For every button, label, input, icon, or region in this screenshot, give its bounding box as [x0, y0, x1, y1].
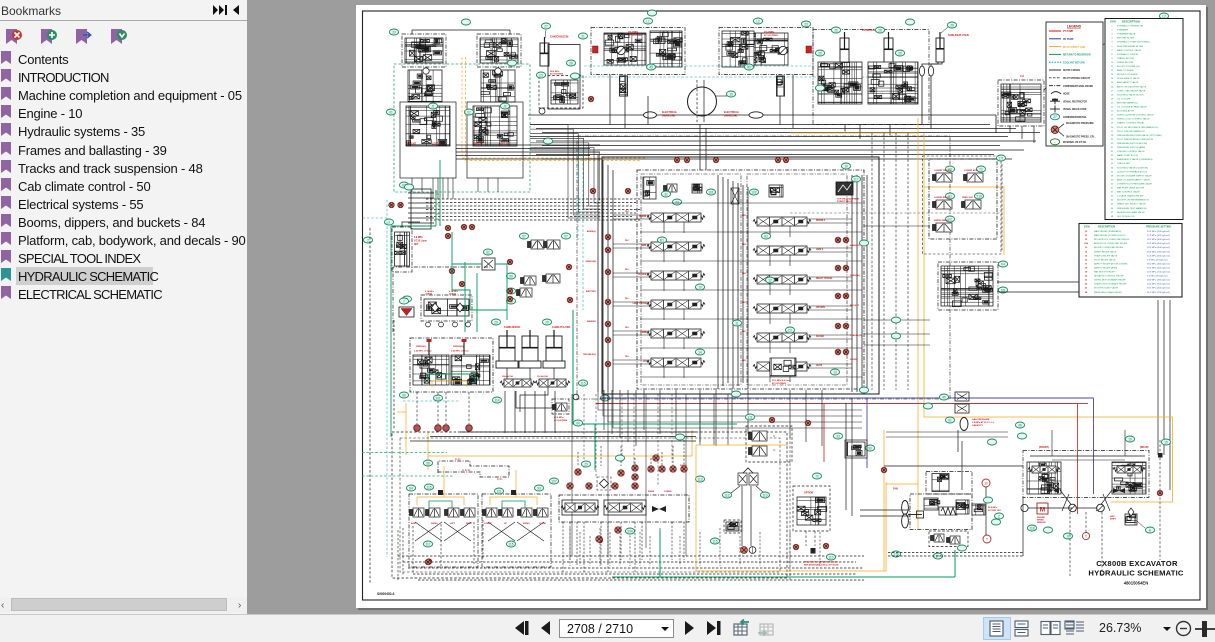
- hose joint ellipse a: [919, 66, 924, 76]
- svg-text:CX800B EXCAVATOR: CX800B EXCAVATOR: [1096, 559, 1178, 568]
- orange dash pair between travel motors: [461, 57, 463, 158]
- svg-text:64: 64: [576, 421, 580, 425]
- dashed bottom rails: [398, 555, 864, 557]
- svg-text:84: 84: [409, 486, 413, 490]
- svg-text:RETURN TO RESERVOIR: RETURN TO RESERVOIR: [1063, 55, 1091, 57]
- svg-text:LOWER ARM: LOWER ARM: [964, 169, 978, 172]
- callout 26b: [875, 27, 884, 33]
- callout at 910,22: [905, 19, 914, 25]
- callout 16: [726, 91, 735, 97]
- svg-text:C2: C2: [788, 328, 792, 332]
- return spool group 2: [604, 500, 646, 515]
- joystick right green bracket: [502, 501, 525, 509]
- callout V4: [998, 261, 1007, 267]
- callout 01: [386, 109, 395, 115]
- return spool group 1: [562, 500, 598, 515]
- svg-text:SWING: SWING: [680, 465, 687, 467]
- svg-text:29: 29: [545, 320, 549, 324]
- callout 45: [939, 394, 948, 400]
- callout 113b: [760, 492, 769, 498]
- svg-text:ARM: ARM: [411, 522, 416, 525]
- svg-text:32: 32: [664, 192, 668, 196]
- callout 293r: [581, 461, 590, 467]
- callout 7: [399, 298, 408, 304]
- callout 43 left: [646, 64, 655, 70]
- svg-text:RIGHT TRAVEL: RIGHT TRAVEL: [816, 277, 833, 280]
- svg-text:SET: SET: [414, 244, 419, 246]
- block 28 dashed box: [539, 76, 583, 109]
- circle top left assembly: [423, 68, 429, 74]
- boom valve left: [818, 62, 862, 104]
- cushion lever left: [428, 341, 430, 356]
- schematic outer border: [363, 11, 1201, 600]
- orange drop left joystick: [443, 466, 445, 497]
- swing motor left block: [591, 28, 685, 75]
- pedal motor circles: [741, 547, 748, 554]
- fan internals valves: [924, 498, 940, 510]
- mid bundle horizontals: [426, 198, 640, 200]
- svg-text:2-STAGE TRAVEL RELIEF: 2-STAGE TRAVEL RELIEF: [1117, 195, 1144, 198]
- spare cylinder 26c: [936, 32, 944, 62]
- svg-text:107: 107: [551, 479, 557, 483]
- svg-text:20.6 MPa (210 kgf/cm2): 20.6 MPa (210 kgf/cm2): [1147, 272, 1170, 274]
- legend row orifice: [1050, 100, 1060, 102]
- callout 171: [996, 155, 1005, 161]
- wires solenoid to right: [997, 281, 1090, 283]
- svg-text:CLOSE: CLOSE: [539, 523, 547, 525]
- svg-text:SUPPLY DRAIN: SUPPLY DRAIN: [1063, 69, 1080, 72]
- legend row SUPPLY DRAIN: [1049, 69, 1061, 71]
- svg-text:LEFT: LEFT: [450, 523, 456, 525]
- svg-text:26: 26: [878, 28, 882, 32]
- svg-text:29: 29: [584, 462, 588, 466]
- callout 21: [578, 33, 587, 39]
- svg-text:7: 7: [403, 299, 405, 303]
- callout 61: [945, 417, 954, 423]
- svg-text:HYDRAULIC SCHEMATIC: HYDRAULIC SCHEMATIC: [1088, 569, 1184, 578]
- callout 57a: [519, 233, 528, 239]
- svg-text:DOZER: DOZER: [850, 359, 858, 361]
- svg-text:DIAGNOSTIC PRESS. CPL.: DIAGNOSTIC PRESS. CPL.: [1066, 135, 1096, 138]
- svg-text:27: 27: [544, 24, 548, 28]
- callout 22: [389, 29, 398, 35]
- svg-text:3.9 MPa (40 kgf/cm2): 3.9 MPa (40 kgf/cm2): [1147, 259, 1168, 261]
- svg-text:T1: T1: [773, 436, 776, 438]
- top wire bundle: [530, 124, 990, 126]
- navy line: [600, 397, 1094, 399]
- svg-text:9: 9: [1067, 534, 1069, 538]
- svg-text:117: 117: [425, 542, 430, 546]
- spool right BOOM 2: [753, 217, 811, 226]
- svg-text:Y10: Y10: [976, 194, 982, 198]
- svg-text:PB1: PB1: [742, 302, 747, 304]
- svg-text:P1 P2: P1 P2: [455, 459, 461, 461]
- svg-text:L2: L2: [1162, 14, 1166, 18]
- svg-text:28: 28: [569, 61, 573, 65]
- svg-text:59: 59: [509, 274, 513, 278]
- swing motor right block: [719, 28, 813, 75]
- solenoid valve Y2: [933, 200, 953, 209]
- green corner left: [391, 225, 436, 227]
- fan right wires: [985, 487, 987, 535]
- svg-text:294: 294: [627, 529, 633, 533]
- pedal drop lines: [741, 486, 743, 546]
- motor plain circle: [1021, 504, 1028, 511]
- xport at 428,562: [425, 559, 431, 565]
- svg-text:SWING MOTOR: SWING MOTOR: [1117, 62, 1134, 64]
- callout L2: [1159, 13, 1168, 19]
- svg-text:39.2 MPa (400 kgf/cm2): 39.2 MPa (400 kgf/cm2): [1147, 243, 1170, 245]
- check valve 6b diamond: [457, 303, 464, 312]
- return manifold risers: [577, 452, 579, 466]
- svg-text:TRAVEL CONTROL PEDAL: TRAVEL CONTROL PEDAL: [1117, 122, 1145, 125]
- svg-text:10V 4A 30A: 10V 4A 30A: [537, 375, 548, 378]
- teal dash under cushion: [403, 400, 460, 402]
- callout 58s: [506, 298, 515, 304]
- svg-text:90: 90: [868, 446, 872, 450]
- svg-text:LEFT B: LEFT B: [432, 143, 441, 146]
- svg-text:DOZER: DOZER: [816, 336, 824, 338]
- swing motor circle left: [617, 46, 625, 54]
- svg-text:LOWER TRAVEL: LOWER TRAVEL: [934, 169, 952, 172]
- red port circle c: [443, 425, 450, 432]
- svg-text:DRIFT: DRIFT: [1110, 519, 1117, 521]
- black dash vertical x790: [789, 437, 791, 580]
- callout 115b: [710, 538, 719, 544]
- svg-text:3.43 MPa 1.9 l/min: 3.43 MPa 1.9 l/min: [451, 350, 470, 353]
- circle i: [573, 394, 579, 400]
- svg-text:PB1: PB1: [742, 360, 747, 362]
- solenoid valve Y3: [933, 173, 953, 182]
- wires 26c down: [921, 76, 923, 125]
- bank to valve5 wires: [516, 391, 552, 408]
- svg-text:A RIGHT: A RIGHT: [406, 143, 417, 146]
- callout at 620,458: [615, 455, 624, 461]
- svg-text:PB1: PB1: [742, 273, 747, 275]
- svg-text:58: 58: [426, 461, 430, 465]
- svg-text:PA1: PA1: [625, 239, 630, 242]
- svg-text:110: 110: [828, 555, 833, 559]
- callout at 896,336: [891, 333, 900, 339]
- pump enclosure frame top: [393, 267, 490, 332]
- svg-text:HOSE: HOSE: [1063, 94, 1070, 96]
- svg-text:DESCRIPTION: DESCRIPTION: [1098, 226, 1115, 229]
- option block 72: [793, 486, 830, 531]
- motor bottom drops: [1069, 512, 1071, 576]
- fan feed verticals: [845, 403, 847, 510]
- svg-text:10A 4A 70A: 10A 4A 70A: [502, 375, 513, 378]
- drops from block23: [844, 124, 846, 132]
- green bottom run: [594, 424, 596, 470]
- small circles below valve 6: [426, 322, 431, 327]
- legend row PD PUMP: [1049, 38, 1061, 40]
- svg-text:SWING(L): SWING(L): [416, 346, 426, 348]
- xports right rail: [843, 237, 849, 243]
- red line: [596, 403, 1078, 405]
- callout 113: [695, 476, 704, 482]
- svg-text:SYM: SYM: [1110, 20, 1116, 24]
- travel out bundle: [456, 144, 600, 146]
- leader 26c: [941, 27, 948, 33]
- legend row hose: [1051, 92, 1061, 94]
- svg-text:CHECK: CHECK: [425, 293, 433, 295]
- orange drop right joystick: [515, 470, 517, 497]
- svg-text:BOOM CYLINDER SAFETY VALVE: BOOM CYLINDER SAFETY VALVE: [1117, 174, 1152, 177]
- right lower wires: [884, 465, 1023, 467]
- main control valve outer box: [602, 157, 879, 394]
- svg-text:BOOM HOLDING VALVE: BOOM HOLDING VALVE: [1094, 287, 1119, 290]
- spool left AUX: [647, 358, 705, 367]
- svg-text:AT SYSTEMS: AT SYSTEMS: [550, 73, 564, 76]
- svg-text:BUCKET: BUCKET: [850, 305, 860, 307]
- port circle T: [983, 535, 991, 543]
- svg-text:SWING RELIEF VALVE: SWING RELIEF VALVE: [1094, 250, 1117, 253]
- svg-text:115: 115: [508, 542, 513, 546]
- svg-text:46: 46: [1018, 423, 1022, 427]
- svg-text:48015054EN: 48015054EN: [1124, 581, 1148, 586]
- svg-text:35.3 MPa 4.0 l/min: 35.3 MPa 4.0 l/min: [772, 379, 791, 382]
- svg-text:AUX2: AUX2: [816, 364, 823, 367]
- block 23 dashdot box: [813, 30, 929, 125]
- svg-text:BOOM 1: BOOM 1: [639, 216, 649, 218]
- callout 112: [722, 492, 731, 498]
- svg-text:PB1: PB1: [742, 215, 747, 217]
- svg-text:115: 115: [426, 485, 431, 489]
- black dash left verticals: [369, 228, 371, 583]
- hose joint ellipse b: [928, 66, 933, 76]
- svg-text:C-8: C-8: [1020, 75, 1025, 78]
- svg-text:PB1: PB1: [742, 244, 747, 246]
- svg-text:STROKE CONTROL VALVE: STROKE CONTROL VALVE: [1117, 150, 1145, 153]
- mcv bottom small relief: [770, 358, 796, 376]
- callout H: [1145, 527, 1154, 533]
- svg-text:SHSLD126-4YER: SHSLD126-4YER: [948, 33, 969, 37]
- swivel joint right: [749, 112, 763, 118]
- red port circle b: [435, 425, 442, 432]
- fan symbol: [902, 501, 909, 515]
- svg-text:12: 12: [768, 278, 772, 282]
- boom cylinder left: [840, 32, 849, 63]
- svg-text:LINE FILTER: LINE FILTER: [1117, 163, 1130, 165]
- green to pedal: [595, 423, 737, 425]
- callout motors right: [1161, 439, 1170, 445]
- filter center top: [731, 188, 739, 204]
- spool left BOOM 1: [647, 213, 705, 222]
- svg-text:AT TEST RIG: AT TEST RIG: [988, 509, 1001, 512]
- xport pair left edge: [389, 202, 394, 207]
- svg-text:SEE CAB PILOT PRESSURE VALVE: SEE CAB PILOT PRESSURE VALVE: [804, 561, 838, 564]
- bundle verticals mid: [699, 125, 701, 171]
- svg-text:PILOT SUPPLY LINE: PILOT SUPPLY LINE: [1063, 47, 1086, 49]
- xport left of swing: [588, 96, 593, 101]
- motor connect bar: [1028, 507, 1072, 509]
- callout 43 right: [744, 64, 753, 70]
- svg-text:34.3 MPa (350 kgf/cm2): 34.3 MPa (350 kgf/cm2): [1147, 284, 1170, 286]
- callout 93: [534, 485, 543, 491]
- xports left rail: [605, 234, 611, 240]
- black dash vertical right: [1159, 440, 1161, 560]
- port circle bottom: [1082, 532, 1089, 539]
- svg-text:SOLENOID VALVE BLOCK: SOLENOID VALVE BLOCK: [1117, 93, 1144, 96]
- valve 6 internals: [424, 299, 469, 316]
- boom cylinder trio 3: [546, 330, 562, 362]
- svg-text:72: 72: [815, 474, 819, 478]
- svg-text:DIAGNOSTIC PRESSURE: DIAGNOSTIC PRESSURE: [1066, 122, 1094, 125]
- callout under M: [1027, 525, 1036, 531]
- right mid valve cluster: [938, 262, 998, 310]
- svg-text:SWING DRIVE: SWING DRIVE: [934, 220, 949, 222]
- callout motors bottom: [1063, 533, 1072, 539]
- svg-text:28.9 MPa (295 kgf/cm2): 28.9 MPa (295 kgf/cm2): [1147, 280, 1170, 282]
- svg-text:21.6 MPa: 21.6 MPa: [554, 417, 564, 419]
- legend row PILOT SUPPLY LINE: [1049, 46, 1061, 48]
- callouts mcv middle: [657, 237, 666, 243]
- svg-text:62: 62: [486, 250, 490, 254]
- svg-text:117: 117: [853, 177, 858, 181]
- callout 60: [506, 288, 515, 294]
- svg-text:19: 19: [844, 164, 848, 168]
- joystick right valves: [483, 508, 498, 517]
- callout 111r: [494, 488, 503, 494]
- right riser lower: [1157, 300, 1159, 455]
- xport option left: [793, 544, 798, 549]
- svg-text:PA1: PA1: [625, 268, 630, 271]
- svg-text:LOWER: LOWER: [484, 523, 492, 525]
- orange horiz top: [790, 132, 918, 134]
- svg-text:BOOM CYLINDER (x2): BOOM CYLINDER (x2): [1117, 66, 1140, 68]
- svg-text:NEGATIVE CONTROL RELIEF: NEGATIVE CONTROL RELIEF: [1094, 275, 1124, 278]
- svg-text:LOWER PILOT PRESSURE VALVE: LOWER PILOT PRESSURE VALVE: [1117, 182, 1152, 185]
- svg-text:3.4 MPa AT 20 C 1.0 L: 3.4 MPa AT 20 C 1.0 L: [972, 421, 995, 424]
- xport right of joysticks: [597, 537, 602, 542]
- svg-text:A2: A2: [764, 234, 768, 238]
- spool left BUCKET: [647, 271, 705, 280]
- callout 23: [801, 21, 810, 27]
- svg-text:39.2 MPa (400 kgf/cm2): 39.2 MPa (400 kgf/cm2): [1147, 263, 1170, 265]
- callout 96: [399, 392, 408, 398]
- cushion valves right: [451, 355, 490, 385]
- svg-text:ARM SAFETY VALVE: ARM SAFETY VALVE: [1117, 81, 1139, 84]
- parts table tall: [1105, 19, 1183, 220]
- svg-text:RAISE: RAISE: [648, 490, 655, 493]
- xport bottomleft: [426, 559, 431, 564]
- cushion valves left: [413, 355, 449, 385]
- travel motors outer frame: [1023, 451, 1149, 498]
- swing motor circle right: [779, 46, 787, 54]
- svg-text:SWING CUSHION CONTROL VALVE: SWING CUSHION CONTROL VALVE: [1117, 114, 1154, 117]
- svg-text:121: 121: [538, 73, 544, 77]
- svg-text:23: 23: [804, 22, 808, 26]
- orange connector fan: [886, 483, 918, 485]
- valve bank segment 2: [535, 379, 570, 387]
- mcv long drops to bus: [571, 394, 573, 556]
- block 28 valve: [551, 80, 578, 104]
- svg-text:SAFETY RELIEF (BOOM LOWER): SAFETY RELIEF (BOOM LOWER): [1094, 262, 1128, 265]
- callout 63: [399, 182, 408, 188]
- svg-text:TOP ONLY EQUIPMENT: TOP ONLY EQUIPMENT: [837, 199, 860, 201]
- L2 drops: [1009, 126, 1011, 133]
- svg-text:OIL COOLER BYPASS VALVE: OIL COOLER BYPASS VALVE: [1117, 106, 1147, 109]
- svg-text:VENIAL REGULATOR: VENIAL REGULATOR: [1063, 108, 1087, 111]
- svg-text:BOOM 2: BOOM 2: [816, 220, 826, 222]
- svg-text:39.2 MPa (400 kgf/cm2): 39.2 MPa (400 kgf/cm2): [1147, 288, 1170, 290]
- callout at 988,500: [983, 497, 992, 503]
- green bracket cushion: [428, 374, 475, 383]
- svg-text:57: 57: [522, 234, 526, 238]
- svg-text:SWING(R): SWING(R): [586, 261, 597, 263]
- callout 27: [541, 23, 550, 29]
- svg-text:57: 57: [564, 234, 568, 238]
- callout V5: [998, 287, 1007, 293]
- svg-text:115: 115: [580, 381, 585, 385]
- callout J1: [428, 103, 437, 109]
- svg-text:SWING: SWING: [640, 332, 648, 334]
- svg-text:L2: L2: [756, 19, 760, 23]
- red port circle d: [466, 425, 473, 432]
- svg-text:TRAVEL(R): TRAVEL(R): [850, 334, 862, 337]
- svg-text:PRESSURE REDUCING VALVE (OPTIO: PRESSURE REDUCING VALVE (OPTIONAL): [1117, 134, 1162, 137]
- svg-text:FAN: FAN: [893, 488, 898, 491]
- motor cross wires: [1060, 490, 1112, 511]
- callout row mcv top: [661, 191, 670, 197]
- spring stack below left swing: [620, 76, 628, 96]
- rear bowtie: [1113, 488, 1125, 493]
- callout 115r: [506, 541, 515, 547]
- svg-text:PRESSURE SWITCH (BOOM): PRESSURE SWITCH (BOOM): [1117, 143, 1147, 145]
- svg-text:PRESSURE SWITCH (ARM): PRESSURE SWITCH (ARM): [1117, 146, 1145, 149]
- svg-text:QUICK FIT UPGRADE BLOCK: QUICK FIT UPGRADE BLOCK: [1117, 170, 1148, 173]
- svg-text:93: 93: [537, 486, 541, 490]
- svg-text:MAIN CONTROL VALVE: MAIN CONTROL VALVE: [1117, 49, 1142, 52]
- svg-text:13: 13: [833, 370, 837, 374]
- valve 58s: [517, 288, 533, 297]
- drops from swing right: [779, 96, 781, 125]
- svg-text:SWING: SWING: [523, 523, 530, 525]
- callout at 652,13: [647, 10, 656, 16]
- callout 25b: [895, 50, 904, 56]
- svg-text:14: 14: [698, 350, 702, 354]
- svg-text:P2 P1: P2 P1: [497, 479, 503, 481]
- bundle stubs down from travel: [411, 178, 413, 192]
- circle top right assembly: [495, 68, 501, 74]
- red MA box left: [593, 46, 599, 53]
- travel pedal valves: [738, 473, 747, 485]
- svg-text:STRAINER VALVE: STRAINER VALVE: [1117, 33, 1136, 36]
- solenoid outer dashed box: [923, 156, 1002, 254]
- mcv internal connectors: [640, 202, 862, 204]
- fan shaft: [908, 514, 922, 516]
- valve 59: [543, 274, 561, 283]
- joystick right box: [482, 494, 551, 567]
- orange frame bottom-center: [696, 444, 788, 446]
- callout at 928,406: [923, 403, 932, 409]
- svg-text:PA1: PA1: [625, 210, 630, 213]
- wire cylinder 26c left: [922, 62, 938, 66]
- green verticals through bundle: [435, 190, 437, 226]
- svg-text:RIGHT: RIGHT: [466, 523, 473, 525]
- black junction square: [811, 548, 816, 554]
- svg-text:J1: J1: [431, 104, 435, 108]
- svg-text:OPTION: OPTION: [804, 492, 813, 495]
- svg-text:TRAVEL MOTOR: TRAVEL MOTOR: [1117, 57, 1134, 60]
- svg-text:ARMS(R): ARMS(R): [850, 244, 860, 247]
- green dash feed lower: [362, 475, 453, 477]
- xport above solenoids: [769, 417, 774, 422]
- svg-text:34.3 MPa (350 kgf/cm2): 34.3 MPa (350 kgf/cm2): [1147, 231, 1170, 233]
- svg-text:PILOT OIL RETURN FILTER (MANIF: PILOT OIL RETURN FILTER (MANIFOLD): [1117, 126, 1159, 129]
- spool right RIGHT TRAVEL: [753, 275, 811, 284]
- svg-text:(FRONT): (FRONT): [1039, 446, 1049, 449]
